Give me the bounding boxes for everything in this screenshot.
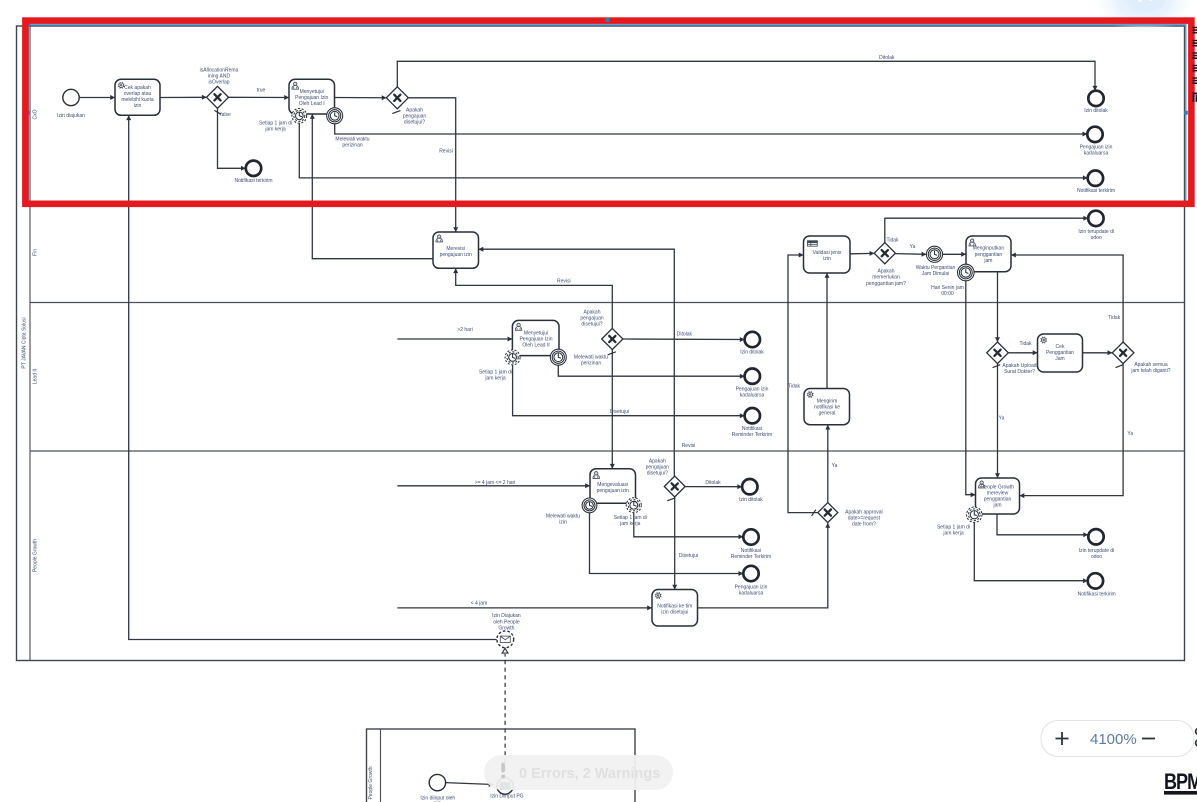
wire G5 Tidak to Cek Penggantian task — [1008, 350, 1037, 355]
pool: PT JAVAN Cipta Solusi — [17, 26, 1185, 661]
default-flow marker G6 down — [1116, 365, 1124, 368]
wire G7 Revisi up to Merevisi right — [479, 247, 675, 477]
svg-text:Ditolak: Ditolak — [677, 332, 693, 338]
svg-text:Revisi: Revisi — [439, 149, 453, 155]
svg-text:Izin Diinput PG: Izin Diinput PG — [490, 794, 523, 800]
wire G2 Revisi to Merevisi task — [408, 98, 458, 232]
lane border Fin/Lead II — [30, 302, 1185, 304]
svg-text:Apakahpengajuandisetujui?: Apakahpengajuandisetujui? — [580, 310, 604, 328]
svg-text:Notifikasi terkirim: Notifikasi terkirim — [1078, 592, 1116, 598]
timer event: intermediate Waktu Pergantian Jam Dimulai — [926, 246, 942, 262]
pool 2: People Growth — [367, 729, 636, 802]
svg-text:Izin ditolak: Izin ditolak — [1084, 108, 1108, 114]
message flow Izin Diinput PG to message start (dashed) — [504, 654, 506, 778]
end event: Izin terupdate di odoo PG — [1088, 529, 1103, 544]
end event: Pengajuan izin kadaluarsa Lead II — [745, 369, 760, 384]
selection handle left-middle — [26, 111, 30, 115]
task: Cek apakah overlap atau melebihi kuota izin — [115, 79, 160, 115]
svg-text:Fin: Fin — [33, 249, 39, 256]
message flow open arrowhead — [502, 648, 508, 653]
wire start to Cek task — [79, 95, 115, 100]
wire message start to Cek task — [126, 115, 497, 639]
end event: Izin terupdate di odoo Fin — [1088, 211, 1103, 226]
gateway: G2 Apakah pengajuan disetujui CxO — [386, 87, 408, 109]
gateway: G8 Apakah approval date>=request date from — [818, 503, 838, 523]
svg-text:Ya: Ya — [1127, 431, 1133, 437]
wire review task to end Izin terupdate odoo PG — [997, 514, 1088, 537]
svg-text:BPMN: BPMN — [1164, 770, 1197, 794]
end event: Notifikasi Reminder Terkirim Lead II — [745, 408, 760, 423]
default-flow marker G7 down — [667, 498, 675, 501]
task: Mengevaluasi pengajuan izin — [590, 469, 636, 504]
BPMN logo watermark — [1164, 770, 1197, 794]
svg-text:People Growth: People Growth — [33, 539, 39, 572]
wire G4 Tidak to end Izin terupdate di odoo — [885, 216, 1088, 243]
wire branch >2 hari to Lead II task — [397, 337, 512, 342]
svg-text:Pengajuan izinkadaluarsa: Pengajuan izinkadaluarsa — [1080, 145, 1113, 157]
wire Cek task to gateway G1 — [160, 95, 207, 100]
wire timer TB4 to end Notifikasi terkirim PG — [974, 522, 1087, 583]
svg-text:PT JAVAN Cipta Solusi: PT JAVAN Cipta Solusi — [22, 317, 28, 368]
wire Notifikasi ke tim to G8 — [698, 523, 831, 608]
pool 2 label divider — [380, 729, 382, 802]
wire G3 Ditolak to end Izin ditolak LeadII — [623, 337, 745, 342]
wire timer Melewati waktu perizinan to end kadaluarsa — [335, 124, 1088, 137]
gateway: G1 isAllocationRemaining AND isOverlap — [207, 86, 229, 108]
task: Menyetujui Pengajuan Izin Oleh Lead II — [512, 320, 559, 355]
wire Lead I task to gateway G2 — [335, 95, 387, 100]
wire G8 Ya to Mengirim notifikasi task — [825, 425, 830, 503]
message start event: Izin Diajukan oleh People Growth — [497, 631, 514, 648]
svg-text:Apakah UploadSurat Dokter?: Apakah UploadSurat Dokter? — [1002, 363, 1036, 375]
svg-text:true: true — [257, 88, 266, 94]
task: Merevisi pengajuan izin — [433, 232, 479, 268]
timer event: boundary Setiap 1 jam Mengevaluasi — [626, 498, 641, 513]
timer event: boundary Melewati waktu perizinan Lead I — [327, 108, 343, 124]
wire Menginputkan to G5 — [995, 272, 1000, 342]
svg-text:MenyetujuiPengajuan IzinOleh L: MenyetujuiPengajuan IzinOleh Lead II — [519, 331, 552, 349]
task: Notifikasi ke tim izin disetujui — [652, 590, 698, 627]
svg-text:Revisi: Revisi — [557, 279, 571, 285]
svg-text:Ya: Ya — [999, 415, 1005, 421]
timer event: boundary Melewati waktu izin PG — [582, 498, 597, 513]
zoom control — [1041, 721, 1197, 757]
svg-text:Disetujui: Disetujui — [679, 553, 698, 559]
svg-text:Izin ditolak: Izin ditolak — [739, 497, 763, 503]
svg-text:Pengajuan izinkadaluarsa: Pengajuan izinkadaluarsa — [735, 585, 768, 597]
svg-text:Revisi: Revisi — [682, 443, 696, 449]
wire timer Waktu Pergantian to Menginputkan task — [943, 252, 966, 257]
end event: Notifikasi terkirim PG — [1088, 573, 1103, 588]
wire G3 Revisi to Merevisi bottom — [453, 268, 612, 328]
svg-text:Izin ditolak: Izin ditolak — [740, 350, 764, 356]
svg-text:>= 4 jam <= 2 hari: >= 4 jam <= 2 hari — [475, 480, 516, 486]
svg-text:Izin diajukan: Izin diajukan — [57, 113, 85, 119]
svg-text:Tidak: Tidak — [1108, 315, 1121, 321]
task: Cek Penggantian Jam — [1038, 334, 1083, 372]
timer event: boundary Setiap 1 jam Lead II — [505, 350, 520, 365]
toast: 0 Errors, 2 Warnings — [484, 755, 673, 790]
gateway: G6 Apakah semua jam telah diganti — [1112, 342, 1134, 364]
svg-text:MenyetujuiPengajuan IzinOleh L: MenyetujuiPengajuan IzinOleh Lead I — [295, 89, 328, 107]
gateway: G3 Apakah pengajuan disetujui Lead II — [602, 328, 623, 349]
red annotation rectangle around CxO lane — [25, 21, 1191, 204]
svg-text:CxO: CxO — [33, 109, 39, 119]
wire Mengirim notifikasi to Validasi bottom — [825, 273, 830, 389]
svg-text:Izin diinput olehPG: Izin diinput olehPG — [420, 796, 455, 802]
svg-text:Mengevaluasipengajuan izin: Mengevaluasipengajuan izin — [597, 482, 629, 494]
selection handle top-middle — [606, 18, 610, 22]
svg-text:Pengajuan izinkadaluarsa: Pengajuan izinkadaluarsa — [736, 387, 769, 399]
wire G2 default down trunk — [396, 109, 398, 608]
svg-text:0 Errors, 2 Warnings: 0 Errors, 2 Warnings — [519, 766, 660, 782]
svg-text:4100%: 4100% — [1090, 731, 1137, 748]
wire Merevisi return to Lead I task — [310, 114, 433, 259]
end event: Pengajuan izin kadaluarsa PG — [743, 566, 758, 581]
wire timer Setiap 1 jam to end Notifikasi terkirim — [299, 123, 1087, 180]
start event: Izin diinput oleh PG — [429, 774, 445, 790]
svg-text:Notifikasi ke timizin disetuju: Notifikasi ke timizin disetujui — [657, 603, 692, 615]
gateway: G4 Apakah memerlukan penggantian jam — [874, 243, 895, 264]
wire start2 to Izin Diinput PG — [446, 782, 494, 787]
selection handle top-left — [27, 22, 31, 26]
task: People Growth mereview penggantian jam — [976, 478, 1020, 514]
context pad icons (clipped at right edge) — [1193, 28, 1197, 33]
default-flow marker G2 down — [392, 111, 400, 114]
task: Validasi jenis izin — [804, 236, 851, 273]
svg-text:Tidak: Tidak — [886, 238, 899, 244]
timer event: boundary Melewati waktu perizinan Lead II — [550, 349, 566, 365]
blue selection outline of CxO lane — [28, 25, 1186, 203]
message throw event: Izin Diinput PG — [497, 778, 513, 794]
start event: Izin diajukan — [63, 89, 79, 105]
svg-text:Ya: Ya — [910, 244, 916, 250]
default-flow marker G1 false — [214, 110, 220, 114]
svg-text:Lead II: Lead II — [33, 369, 39, 384]
lane border Lead II/People Growth — [30, 450, 1185, 452]
end event: Pengajuan izin kadaluarsa CxO — [1087, 127, 1102, 142]
wire G1 false to end Notifikasi terkirim — [218, 108, 246, 171]
svg-text:false: false — [220, 112, 231, 118]
wire G6 Ya to review task right — [1020, 364, 1124, 499]
wire G2 Ditolak to end Izin ditolak — [397, 61, 1097, 90]
svg-text:Apakahpengajuandisetujui?: Apakahpengajuandisetujui? — [403, 108, 427, 126]
lane border CxO/Fin — [30, 202, 1185, 204]
wire timer TL2 to end Reminder LeadII — [513, 365, 745, 418]
timer event: boundary Setiap 1 jam review — [967, 507, 982, 522]
wire timer TR3 to end Reminder PG — [634, 513, 744, 540]
wire Cek Penggantian to G6 — [1083, 350, 1113, 355]
timer event: boundary Setiap 1 jam Lead I — [292, 108, 307, 123]
default-flow marker G8 left — [812, 510, 816, 516]
wire G8 Tidak to Validasi task — [788, 253, 817, 513]
svg-text:Notifikasi terkirim: Notifikasi terkirim — [234, 178, 272, 184]
default-flow marker G5 down — [993, 365, 1001, 368]
svg-text:Tidak: Tidak — [1019, 341, 1032, 347]
wire G7 Disetujui to Notifikasi ke tim task — [672, 497, 677, 590]
svg-text:Ditolak: Ditolak — [705, 480, 721, 486]
wire timer TL3 to end kadaluarsa PG — [590, 513, 744, 576]
end event: Notifikasi terkirim CxO — [246, 161, 261, 176]
end event: Izin ditolak Lead II — [745, 332, 760, 347]
gateway: G5 Apakah Upload Surat Dokter — [987, 342, 1009, 364]
wire timer Hari Senin to review task left — [966, 281, 976, 497]
wire G6 Tidak to Menginputkan right — [1011, 253, 1123, 343]
svg-text:Notifikasi terkirim: Notifikasi terkirim — [1077, 188, 1115, 194]
wire branch >=4jam<=2hari to Mengevaluasi task — [397, 483, 590, 488]
wire G3 Disetujui to Mengevaluasi task — [610, 350, 615, 469]
wire Validasi task to G4 — [850, 251, 874, 256]
svg-text:< 4 jam: < 4 jam — [471, 600, 488, 606]
svg-text:Apakahpengajuandisetujui?: Apakahpengajuandisetujui? — [646, 459, 670, 477]
svg-text:Ya: Ya — [832, 463, 838, 469]
task: Mengirim notifikasi ke general — [804, 389, 850, 425]
task: Menginputkan penggantian jam — [966, 236, 1011, 272]
svg-text:Ditolak: Ditolak — [879, 55, 895, 61]
svg-text:Disetujui: Disetujui — [610, 409, 629, 415]
default-flow marker G3 down — [608, 352, 616, 355]
wire G1 true to Lead I task — [228, 95, 289, 100]
pool label divider — [29, 26, 31, 661]
svg-text:>2 hari: >2 hari — [457, 327, 472, 333]
task: Menyetujui Pengajuan Izin Oleh Lead I — [289, 79, 335, 114]
svg-text:Tidak: Tidak — [788, 384, 801, 390]
timer event: boundary Hari Senin jam 00:00 — [958, 264, 975, 281]
wire G5 Ya to review task top — [995, 364, 1000, 478]
svg-text:People Growth: People Growth — [368, 766, 374, 799]
end event: Izin ditolak PG — [742, 479, 757, 494]
wire G7 Ditolak to end Izin ditolak PG — [685, 484, 742, 489]
selection handle right-middle — [1184, 111, 1188, 115]
end event: Izin ditolak CxO — [1088, 91, 1103, 106]
end event: Notifikasi Reminder Terkirim PG — [743, 529, 758, 544]
wire timer TR2 to end kadaluarsa LeadII — [558, 365, 744, 379]
wire G4 Ya to timer Waktu Pergantian — [895, 252, 926, 257]
svg-text:Apakah semuajam telah diganti?: Apakah semuajam telah diganti? — [1130, 362, 1170, 374]
wire branch <4jam to Notifikasi ke tim task — [397, 605, 652, 610]
end event: Notifikasi terkirim CxO right — [1088, 171, 1103, 186]
gateway: G7 Apakah pengajuan disetujui PG — [664, 476, 685, 497]
